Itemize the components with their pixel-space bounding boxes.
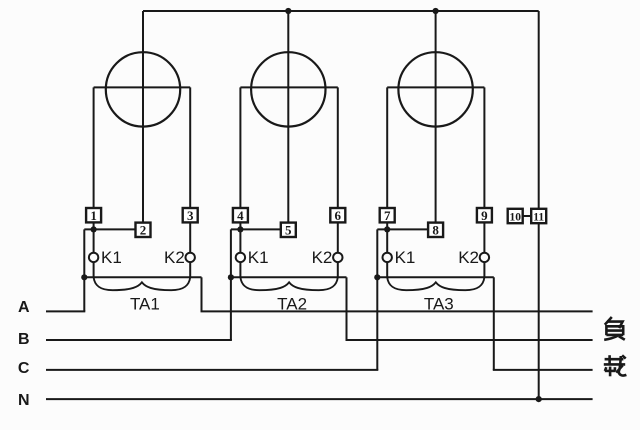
svg-text:7: 7	[384, 208, 391, 223]
svg-text:B: B	[18, 331, 30, 348]
svg-text:K2: K2	[312, 248, 333, 267]
svg-text:6: 6	[335, 208, 342, 223]
svg-text:TA3: TA3	[424, 295, 454, 314]
svg-text:2: 2	[140, 222, 147, 237]
svg-text:TA2: TA2	[277, 295, 307, 314]
svg-text:K2: K2	[164, 248, 185, 267]
svg-text:4: 4	[237, 208, 244, 223]
svg-text:10: 10	[509, 212, 521, 224]
svg-text:K1: K1	[248, 248, 269, 267]
svg-text:5: 5	[285, 222, 292, 237]
svg-text:3: 3	[187, 208, 194, 223]
svg-text:TA1: TA1	[130, 295, 160, 314]
svg-text:1: 1	[90, 208, 97, 223]
svg-text:K1: K1	[101, 248, 122, 267]
svg-text:K2: K2	[458, 248, 479, 267]
svg-text:C: C	[18, 360, 30, 377]
svg-text:11: 11	[533, 212, 544, 224]
svg-text:9: 9	[481, 208, 488, 223]
svg-text:8: 8	[432, 222, 439, 237]
svg-text:K1: K1	[395, 248, 416, 267]
svg-text:A: A	[18, 299, 30, 316]
svg-text:N: N	[18, 392, 30, 409]
